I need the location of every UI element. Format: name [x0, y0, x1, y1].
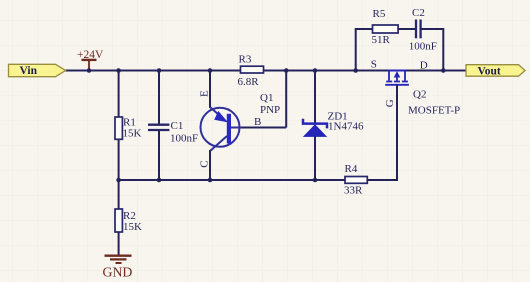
wire: C1 top lead [158, 71, 160, 125]
svg-text:100nF: 100nF [409, 40, 437, 52]
wire: Q1 base lead to riser [241, 127, 286, 129]
wire: R2 top lead [118, 180, 120, 209]
wire: C1 bottom lead [158, 130, 160, 180]
resistor R5 [372, 8, 399, 46]
svg-text:15K: 15K [123, 127, 142, 139]
svg-text:PNP: PNP [260, 104, 280, 116]
resistor R2 [115, 209, 142, 233]
resistor R3 [238, 53, 264, 88]
wire: zener top lead [314, 71, 316, 124]
node: source node junction [353, 68, 358, 73]
node: zener bottom junction [313, 178, 318, 183]
capacitor C2 [409, 7, 437, 53]
node: bottom rail left junction [116, 178, 121, 183]
svg-text:R5: R5 [373, 8, 386, 20]
transistor Q2 MOSFET-P [371, 58, 460, 116]
svg-text:6.8R: 6.8R [238, 76, 260, 88]
wire: top rail drain to Vout [405, 70, 467, 72]
wire: R1 bottom lead [118, 139, 120, 180]
wire: base riser up to rail [285, 71, 287, 128]
node: base riser junction [284, 68, 289, 73]
wire: top rail Vin side [64, 70, 389, 72]
svg-text:100nF: 100nF [170, 132, 198, 144]
svg-text:R3: R3 [239, 53, 252, 65]
node: +24V junction [87, 68, 92, 73]
wire: snubber left leg [356, 29, 373, 71]
svg-text:15K: 15K [123, 221, 142, 233]
svg-text:S: S [371, 58, 377, 70]
svg-text:GND: GND [103, 265, 133, 280]
transistor Q1 [199, 90, 281, 168]
node: drain node junction [441, 68, 446, 73]
svg-text:E: E [199, 90, 211, 97]
wire: snubber right leg [421, 29, 444, 71]
svg-text:Q2: Q2 [413, 89, 426, 101]
svg-text:C2: C2 [412, 7, 425, 19]
svg-text:B: B [254, 116, 261, 128]
capacitor C1 [148, 120, 198, 144]
wire: Q1 emitter lead [209, 71, 211, 109]
sheet entry Vin [9, 64, 66, 77]
wire: between R5 and C2 [398, 28, 416, 30]
wire: zener bottom lead [314, 136, 316, 180]
wire: bottom rail [119, 179, 345, 181]
node: emitter junction on rail [208, 68, 213, 73]
node: collector junction on bottom rail [208, 178, 213, 183]
svg-text:D: D [420, 60, 428, 72]
svg-text:MOSFET-P: MOSFET-P [408, 104, 460, 116]
svg-text:C1: C1 [171, 120, 184, 132]
wire: R2 bottom lead [118, 232, 120, 255]
svg-text:G: G [384, 99, 396, 107]
svg-text:Vout: Vout [478, 65, 501, 77]
svg-text:R4: R4 [345, 163, 358, 175]
svg-text:51R: 51R [372, 34, 391, 46]
svg-text:Q1: Q1 [260, 92, 273, 104]
node: R1 top junction [116, 68, 121, 73]
svg-text:C: C [199, 160, 211, 167]
svg-text:Vin: Vin [20, 65, 38, 77]
resistor R1 [115, 116, 142, 139]
wire: gate lead down and left to R4 [367, 85, 397, 180]
zener diode ZD1 [303, 110, 364, 136]
wire: Q1 collector lead [209, 150, 211, 180]
node: C1 top junction [157, 68, 162, 73]
ground [103, 256, 133, 280]
power port +24V [77, 49, 104, 71]
svg-text:+24V: +24V [77, 49, 104, 61]
sheet entry Vout [466, 65, 525, 78]
svg-text:33R: 33R [344, 184, 363, 196]
resistor R4 [344, 163, 367, 197]
svg-text:1N4746: 1N4746 [328, 120, 364, 132]
node: C1 bottom junction [157, 178, 162, 183]
wire: R1 top lead [118, 71, 120, 118]
node: zener top junction [313, 68, 318, 73]
